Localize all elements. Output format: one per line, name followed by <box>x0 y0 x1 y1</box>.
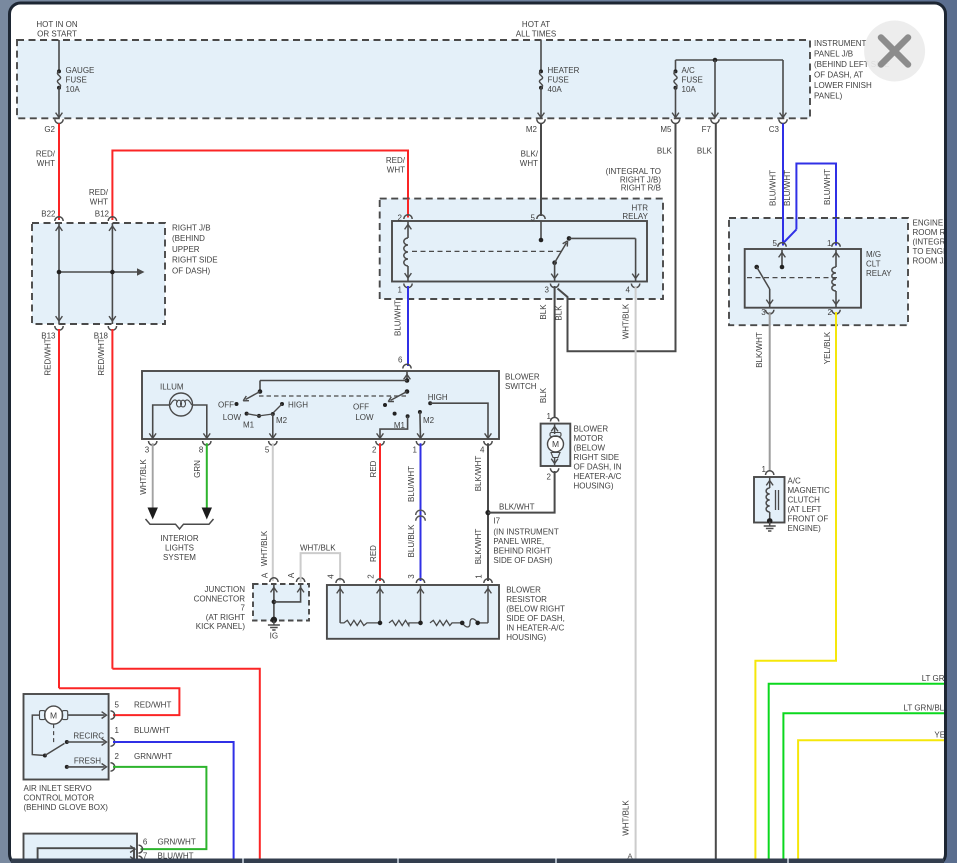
svg-text:BLK: BLK <box>697 147 713 156</box>
svg-text:5: 5 <box>531 214 536 223</box>
svg-text:3: 3 <box>407 574 416 579</box>
svg-text:BLU/WHT: BLU/WHT <box>769 170 778 206</box>
svg-text:IN HEATER-A/C: IN HEATER-A/C <box>506 624 564 633</box>
svg-text:BLK/: BLK/ <box>521 150 539 159</box>
svg-text:WHT: WHT <box>37 159 55 168</box>
svg-text:2: 2 <box>547 473 552 482</box>
svg-text:B12: B12 <box>95 210 110 219</box>
svg-text:FRONT OF: FRONT OF <box>788 515 829 524</box>
svg-text:UPPER: UPPER <box>172 245 200 254</box>
svg-text:OF DASH, IN: OF DASH, IN <box>574 463 622 472</box>
svg-text:LOW: LOW <box>355 413 374 422</box>
svg-text:RED: RED <box>369 545 378 562</box>
svg-text:A: A <box>287 572 296 578</box>
svg-text:BLOWER: BLOWER <box>505 373 540 382</box>
svg-text:FUSE: FUSE <box>66 76 87 85</box>
svg-text:SIDE OF DASH,: SIDE OF DASH, <box>506 614 565 623</box>
svg-text:INTERIOR: INTERIOR <box>160 534 198 543</box>
svg-text:BLK: BLK <box>539 304 548 320</box>
svg-text:SYSTEM: SYSTEM <box>163 553 196 562</box>
svg-text:HOT AT: HOT AT <box>522 20 550 29</box>
svg-text:KICK PANEL): KICK PANEL) <box>196 622 246 631</box>
svg-text:GAUGE: GAUGE <box>66 66 95 75</box>
svg-text:RED: RED <box>369 460 378 477</box>
svg-text:BLU/WHT: BLU/WHT <box>823 169 832 205</box>
svg-text:7: 7 <box>241 604 246 613</box>
svg-text:10A: 10A <box>66 85 81 94</box>
svg-text:M1: M1 <box>243 421 255 430</box>
svg-text:40A: 40A <box>548 85 563 94</box>
svg-text:2: 2 <box>372 446 377 455</box>
svg-text:IG: IG <box>270 632 278 641</box>
svg-text:G2: G2 <box>44 125 55 134</box>
svg-text:OF DASH): OF DASH) <box>172 266 211 275</box>
svg-text:RED/WHT: RED/WHT <box>97 338 106 375</box>
svg-text:5: 5 <box>115 701 120 710</box>
svg-text:RIGHT SIDE: RIGHT SIDE <box>574 453 620 462</box>
svg-text:(BELOW: (BELOW <box>574 444 606 453</box>
svg-text:(AT RIGHT: (AT RIGHT <box>206 613 245 622</box>
svg-text:HOUSING): HOUSING) <box>506 633 546 642</box>
svg-text:OFF: OFF <box>218 401 234 410</box>
svg-text:WHT/BLK: WHT/BLK <box>300 544 336 553</box>
svg-text:RESISTOR: RESISTOR <box>506 595 547 604</box>
svg-text:1: 1 <box>398 286 403 295</box>
svg-text:BLOWER: BLOWER <box>574 425 609 434</box>
svg-text:3: 3 <box>545 286 550 295</box>
svg-text:HEATER-A/C: HEATER-A/C <box>574 472 622 481</box>
svg-text:WHT/BLK: WHT/BLK <box>622 800 631 836</box>
svg-text:CLUTCH: CLUTCH <box>788 496 821 505</box>
svg-text:6: 6 <box>398 356 403 365</box>
svg-text:M/G: M/G <box>866 250 881 259</box>
svg-text:LOW: LOW <box>223 413 242 422</box>
svg-text:SIDE OF DASH): SIDE OF DASH) <box>493 556 552 565</box>
svg-text:LOWER FINISH: LOWER FINISH <box>814 81 872 90</box>
svg-text:M2: M2 <box>423 416 435 425</box>
svg-text:C3: C3 <box>769 125 780 134</box>
svg-text:2: 2 <box>828 308 833 317</box>
svg-text:RELAY: RELAY <box>866 269 892 278</box>
svg-text:HOT IN ON: HOT IN ON <box>36 20 77 29</box>
svg-text:RECIRC: RECIRC <box>73 731 104 740</box>
svg-text:B22: B22 <box>41 210 56 219</box>
svg-text:CLT: CLT <box>866 260 881 269</box>
svg-text:GRN: GRN <box>193 460 202 478</box>
svg-text:BEHIND RIGHT: BEHIND RIGHT <box>493 547 550 556</box>
svg-text:10A: 10A <box>682 85 697 94</box>
svg-text:WHT: WHT <box>90 198 108 207</box>
svg-text:LT GRN/BLK: LT GRN/BLK <box>904 704 951 713</box>
svg-text:CONTROL MOTOR: CONTROL MOTOR <box>24 794 95 803</box>
svg-text:6: 6 <box>143 838 148 847</box>
svg-text:BLK/WHT: BLK/WHT <box>474 529 483 565</box>
svg-text:BLU/WHT: BLU/WHT <box>134 726 170 735</box>
svg-text:4: 4 <box>327 574 336 579</box>
svg-text:BLU/WHT: BLU/WHT <box>407 466 416 502</box>
svg-text:M1: M1 <box>394 421 406 430</box>
svg-text:PANEL WIRE,: PANEL WIRE, <box>493 537 544 546</box>
svg-text:1: 1 <box>474 574 483 579</box>
svg-text:AIR INLET SERVO: AIR INLET SERVO <box>24 784 92 793</box>
svg-text:1: 1 <box>115 726 120 735</box>
svg-text:1: 1 <box>547 412 552 421</box>
svg-text:5: 5 <box>773 239 778 248</box>
svg-text:PANEL J/B: PANEL J/B <box>814 50 853 59</box>
svg-text:2: 2 <box>115 752 120 761</box>
svg-text:4: 4 <box>480 446 485 455</box>
svg-text:2: 2 <box>366 574 375 579</box>
svg-text:BLU/WHT: BLU/WHT <box>783 170 792 206</box>
svg-text:RED/: RED/ <box>89 188 109 197</box>
svg-text:A: A <box>261 572 270 578</box>
svg-text:WHT: WHT <box>520 159 538 168</box>
svg-text:FUSE: FUSE <box>682 76 703 85</box>
svg-text:3: 3 <box>761 308 766 317</box>
svg-text:BLK: BLK <box>657 147 673 156</box>
svg-text:WHT: WHT <box>387 166 405 175</box>
svg-text:OR START: OR START <box>37 30 77 39</box>
svg-text:HEATER: HEATER <box>548 66 580 75</box>
svg-text:FRESH: FRESH <box>74 756 101 765</box>
svg-text:GRN/WHT: GRN/WHT <box>134 752 172 761</box>
svg-text:1: 1 <box>827 239 832 248</box>
svg-text:M2: M2 <box>276 416 288 425</box>
svg-text:BLK: BLK <box>539 387 548 403</box>
svg-text:RELAY: RELAY <box>622 212 648 221</box>
svg-text:BLU/BLK: BLU/BLK <box>407 524 416 558</box>
svg-text:(IN INSTRUMENT: (IN INSTRUMENT <box>493 528 558 537</box>
svg-text:LIGHTS: LIGHTS <box>165 544 194 553</box>
svg-text:BLK/WHT: BLK/WHT <box>499 502 535 511</box>
svg-text:M2: M2 <box>526 125 538 134</box>
svg-text:BLOWER: BLOWER <box>506 586 541 595</box>
svg-text:1: 1 <box>413 446 418 455</box>
svg-text:HIGH: HIGH <box>288 401 308 410</box>
svg-text:WHT/BLK: WHT/BLK <box>139 459 148 495</box>
svg-text:5: 5 <box>265 446 270 455</box>
svg-text:OFF: OFF <box>353 403 369 412</box>
svg-text:M: M <box>552 439 559 449</box>
svg-text:GRN/WHT: GRN/WHT <box>158 838 196 847</box>
svg-text:INSTRUMENT: INSTRUMENT <box>814 39 867 48</box>
svg-text:BLU/WHT: BLU/WHT <box>394 300 403 336</box>
svg-text:MOTOR: MOTOR <box>574 434 604 443</box>
svg-text:CONNECTOR: CONNECTOR <box>194 594 246 603</box>
svg-text:RIGHT SIDE: RIGHT SIDE <box>172 256 218 265</box>
svg-text:SWITCH: SWITCH <box>505 382 537 391</box>
svg-text:A/C: A/C <box>682 66 696 75</box>
svg-text:2: 2 <box>398 214 403 223</box>
svg-text:RED/WHT: RED/WHT <box>44 338 53 375</box>
svg-text:PANEL): PANEL) <box>814 92 843 101</box>
svg-text:(BEHIND: (BEHIND <box>172 234 205 243</box>
svg-text:JUNCTION: JUNCTION <box>205 585 246 594</box>
svg-text:F7: F7 <box>702 125 712 134</box>
svg-text:HOUSING): HOUSING) <box>574 482 614 491</box>
svg-text:(BELOW RIGHT: (BELOW RIGHT <box>506 605 565 614</box>
svg-text:MAGNETIC: MAGNETIC <box>788 486 830 495</box>
svg-text:BLK: BLK <box>555 305 564 321</box>
svg-text:4: 4 <box>626 286 631 295</box>
svg-text:M5: M5 <box>660 125 672 134</box>
svg-text:WHT/BLK: WHT/BLK <box>260 530 269 566</box>
svg-text:WHT/BLK: WHT/BLK <box>622 303 631 339</box>
svg-text:RIGHT R/B: RIGHT R/B <box>621 184 661 193</box>
svg-text:HIGH: HIGH <box>428 393 448 402</box>
svg-text:8: 8 <box>199 446 204 455</box>
svg-text:M: M <box>50 710 57 720</box>
svg-text:ENGINE: ENGINE <box>913 219 944 228</box>
svg-text:BLK/WHT: BLK/WHT <box>474 456 483 492</box>
svg-text:FUSE: FUSE <box>548 76 569 85</box>
svg-text:RED/: RED/ <box>386 156 406 165</box>
svg-text:YEL/BLK: YEL/BLK <box>823 331 832 364</box>
svg-text:BLK/WHT: BLK/WHT <box>755 332 764 368</box>
svg-text:RED/WHT: RED/WHT <box>134 701 171 710</box>
svg-text:ALL TIMES: ALL TIMES <box>516 30 556 39</box>
svg-text:(BEHIND GLOVE BOX): (BEHIND GLOVE BOX) <box>24 803 109 812</box>
svg-text:ILLUM: ILLUM <box>160 383 184 392</box>
svg-text:3: 3 <box>145 446 150 455</box>
svg-text:A/C: A/C <box>788 477 802 486</box>
svg-text:ENGINE): ENGINE) <box>788 524 822 533</box>
svg-text:RED/: RED/ <box>36 150 56 159</box>
svg-text:(AT LEFT: (AT LEFT <box>788 505 822 514</box>
svg-text:I7: I7 <box>493 517 500 526</box>
svg-text:OF DASH, AT: OF DASH, AT <box>814 71 863 80</box>
svg-text:RIGHT J/B: RIGHT J/B <box>172 224 211 233</box>
svg-text:1: 1 <box>762 465 767 474</box>
